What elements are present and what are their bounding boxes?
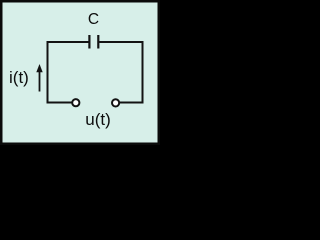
outer frame border xyxy=(1,1,159,144)
wire top-right segment xyxy=(99,42,142,43)
svg-text:i(t): i(t) xyxy=(9,68,29,87)
svg-text:u(t): u(t) xyxy=(85,110,111,129)
wire right vertical branch xyxy=(120,42,143,103)
wire left vertical branch xyxy=(48,41,72,103)
capacitor C1 left plate xyxy=(88,35,90,49)
capacitor C1 right plate xyxy=(97,35,99,49)
terminal right (open circle) xyxy=(112,99,119,106)
svg-text:C: C xyxy=(88,11,99,28)
wire top-left segment xyxy=(48,41,89,42)
terminal left (open circle) xyxy=(72,99,79,106)
current arrow i(t) xyxy=(36,64,42,92)
